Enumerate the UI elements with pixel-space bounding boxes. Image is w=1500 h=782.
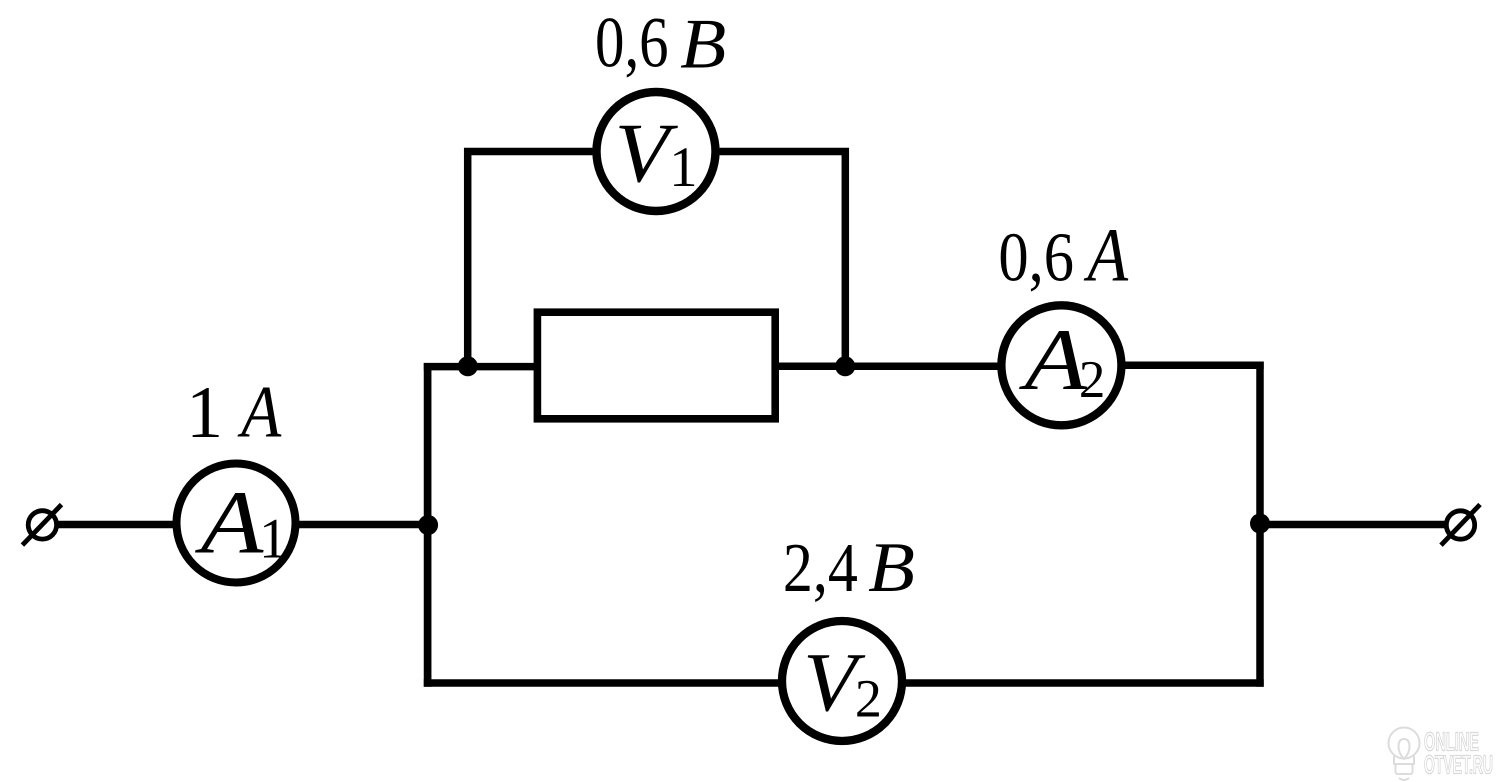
svg-text:1: 1	[259, 508, 288, 571]
wire: right branch vertical	[1256, 362, 1264, 687]
svg-text:2,4: 2,4	[783, 530, 858, 607]
node left main junction	[418, 515, 438, 535]
wire: resistor to A2	[775, 362, 1062, 370]
node V1 right junction	[835, 356, 855, 376]
svg-text:B: B	[868, 529, 915, 607]
voltmeter V1	[597, 92, 716, 211]
svg-text:A: A	[1083, 214, 1129, 298]
terminal left	[22, 505, 61, 545]
svg-text:B: B	[680, 6, 726, 84]
node right main junction	[1250, 514, 1270, 534]
wire: left terminal to node	[58, 521, 428, 529]
watermark text	[1424, 727, 1493, 780]
wire: V1 top horizontal	[464, 148, 849, 156]
svg-text:0,6: 0,6	[595, 4, 669, 83]
svg-text:0,6: 0,6	[998, 220, 1074, 297]
wire: node to right terminal	[1256, 521, 1445, 529]
voltmeter V2	[782, 621, 902, 741]
terminal right	[1441, 505, 1480, 546]
wire: bottom branch	[424, 679, 1264, 687]
svg-text:A: A	[1019, 312, 1089, 409]
svg-text:1: 1	[669, 136, 698, 199]
wire: top branch horizontal to resistor	[424, 363, 540, 371]
svg-text:A: A	[195, 473, 265, 572]
wire: V1 left vertical	[464, 148, 472, 370]
resistor R	[537, 312, 775, 419]
watermark logo	[1389, 728, 1420, 781]
wire: V1 right vertical	[842, 148, 850, 370]
svg-text:2: 2	[855, 668, 882, 728]
svg-text:A: A	[237, 372, 282, 454]
wire: left branch vertical	[424, 363, 432, 687]
svg-text:1: 1	[186, 372, 223, 454]
ammeter A1	[177, 464, 296, 583]
svg-text:2: 2	[1079, 351, 1106, 409]
ammeter A2	[1001, 305, 1121, 425]
svg-text:OTVET.RU: OTVET.RU	[1424, 750, 1493, 780]
node V1 left junction	[458, 356, 478, 376]
wire: A2 to right corner	[1062, 362, 1264, 370]
